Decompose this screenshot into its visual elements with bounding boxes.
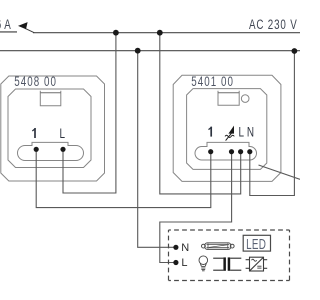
svg-text:N: N — [181, 242, 189, 254]
svg-text:N: N — [247, 124, 254, 140]
svg-text:L: L — [60, 125, 66, 141]
svg-text:5401 00: 5401 00 — [191, 73, 234, 89]
svg-text:A: A — [4, 16, 11, 32]
svg-text:5408 00: 5408 00 — [14, 73, 57, 89]
svg-text:6: 6 — [0, 16, 1, 32]
svg-text:L: L — [239, 124, 245, 140]
svg-text:L: L — [181, 257, 187, 269]
svg-text:LED: LED — [246, 236, 266, 253]
svg-text:AC 230 V: AC 230 V — [249, 16, 298, 32]
